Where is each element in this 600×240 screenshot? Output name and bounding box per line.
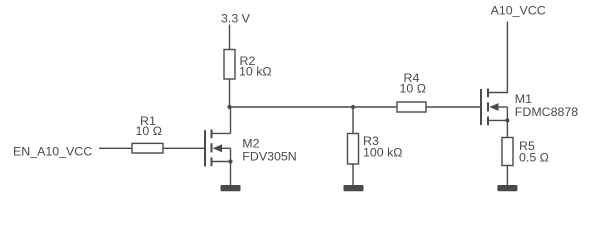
M2 channel drain segment — [211, 130, 213, 139]
M1 gate bar — [480, 89, 482, 125]
M1 reference and part number labels — [515, 92, 578, 119]
wire R3 bottom to ground — [352, 164, 354, 185]
wire node B to R4 left — [353, 106, 397, 108]
R1 reference and value labels — [136, 114, 163, 138]
resistor R1 — [132, 114, 163, 153]
wire EN_A10_VCC to R1 — [99, 147, 132, 149]
wire M2 drain up to node A — [230, 107, 232, 133]
svg-text:M1: M1 — [515, 92, 532, 106]
resistor R4 — [397, 71, 426, 112]
R3 body — [348, 134, 359, 165]
M1 body-to-source wire — [506, 107, 508, 120]
transistor M1 — [481, 89, 578, 126]
wire R2 bottom to node A — [229, 79, 231, 107]
net A10_VCC label — [491, 4, 546, 18]
svg-text:10 kΩ: 10 kΩ — [239, 65, 272, 79]
M2 body-to-source wire — [230, 148, 232, 161]
resistor R5 — [502, 138, 549, 166]
wire node B down to R3 — [352, 107, 354, 134]
junction dot M2 source/body — [228, 159, 232, 163]
wire R1 to M2 gate — [163, 147, 205, 149]
M2 drain stub — [212, 132, 231, 134]
wire M1 source down to R5 — [506, 120, 508, 137]
M2 source stub — [212, 161, 231, 163]
junction dot M1 source/body — [505, 118, 509, 122]
R4 reference and value labels — [400, 71, 427, 96]
R3 reference and value labels — [363, 134, 403, 159]
svg-text:EN_A10_VCC: EN_A10_VCC — [13, 144, 92, 158]
M1 channel body segment — [487, 102, 489, 111]
M1 source stub — [488, 119, 507, 121]
R2 body — [224, 50, 235, 80]
svg-text:10 Ω: 10 Ω — [400, 82, 427, 96]
svg-text:FDV305N: FDV305N — [242, 149, 296, 163]
svg-text:10 Ω: 10 Ω — [136, 124, 163, 138]
ground (M2) — [221, 185, 241, 191]
M2 gate bar — [204, 130, 206, 166]
ground (R5) — [497, 185, 517, 191]
M1 channel drain segment — [487, 89, 489, 98]
M2 body wire — [222, 147, 231, 149]
R2 reference and value labels — [239, 54, 272, 79]
svg-text:M2: M2 — [242, 137, 259, 151]
svg-text:100 kΩ: 100 kΩ — [363, 146, 403, 160]
resistor R2 — [224, 50, 272, 80]
M1 channel source segment — [487, 117, 489, 126]
net 3.3V: label — [221, 11, 251, 25]
transistor M2 — [205, 130, 297, 167]
M1 body arrow — [489, 103, 498, 111]
R4 body — [397, 102, 426, 112]
R5 body — [502, 138, 513, 166]
wire node A to node B — [230, 106, 354, 108]
node B junction dot — [351, 105, 355, 109]
node A junction dot — [227, 105, 231, 109]
svg-text:3.3 V: 3.3 V — [221, 11, 251, 25]
svg-text:FDMC8878: FDMC8878 — [515, 105, 578, 119]
net EN_A10_VCC label — [13, 144, 92, 158]
wire M2 source to ground — [230, 162, 232, 186]
ground (R3) — [344, 185, 364, 191]
R5 reference and value labels — [519, 139, 549, 164]
wire R5 bottom to ground — [506, 166, 508, 186]
M1 body wire — [498, 106, 507, 108]
M2 channel body segment — [211, 143, 213, 152]
R1 body — [132, 143, 163, 153]
M2 channel source segment — [211, 157, 213, 166]
wire A10_VCC down to M1 drain — [488, 22, 507, 93]
svg-text:0.5 Ω: 0.5 Ω — [519, 150, 549, 164]
resistor R3 — [348, 134, 403, 165]
M2 body arrow — [213, 144, 222, 152]
svg-text:A10_VCC: A10_VCC — [491, 4, 546, 18]
M2 reference and part number labels — [242, 137, 296, 164]
wire R4 right to M1 gate — [426, 106, 481, 108]
wire 3.3V to R2 top — [229, 25, 231, 50]
